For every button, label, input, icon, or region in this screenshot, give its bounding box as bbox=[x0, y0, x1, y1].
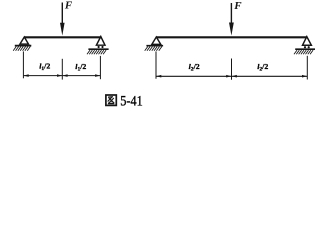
pin support A2 bbox=[152, 37, 161, 44]
extension line beam2 right bbox=[306, 56, 308, 80]
hatching B2 bbox=[294, 50, 313, 54]
rollers B1 bbox=[98, 46, 100, 48]
roller support B1 bbox=[96, 37, 105, 46]
dimension line beam1 left half bbox=[24, 74, 63, 77]
beam 1 bbox=[24, 36, 101, 38]
ground A2 bbox=[146, 45, 163, 47]
svg-text:5-41: 5-41 bbox=[120, 94, 143, 110]
beam 2 bbox=[156, 36, 307, 38]
force F2 arrow bbox=[229, 3, 234, 36]
extension line beam1 left bbox=[22, 51, 24, 78]
svg-text:l1/2: l1/2 bbox=[75, 62, 86, 73]
svg-text:l2/2: l2/2 bbox=[257, 62, 268, 73]
extension line beam2 left bbox=[155, 51, 157, 78]
caption hanzi TU (figure) drawn glyph bbox=[106, 95, 116, 105]
ground B1 bbox=[88, 48, 108, 50]
hatching B1 bbox=[87, 50, 106, 54]
dimension line beam2 left half bbox=[156, 75, 231, 78]
ground B2 bbox=[295, 48, 315, 50]
svg-text:l2/2: l2/2 bbox=[189, 62, 200, 73]
hatching A1 bbox=[13, 47, 30, 51]
pin support A1 bbox=[20, 37, 29, 44]
force F1 arrow bbox=[60, 3, 65, 36]
dimension line beam1 right half bbox=[63, 74, 101, 77]
extension line beam1 right bbox=[99, 56, 101, 79]
extension line beam2 middle bbox=[231, 59, 233, 80]
rollers B2 bbox=[304, 46, 306, 48]
ground A1 bbox=[15, 45, 32, 47]
svg-text:F: F bbox=[233, 0, 242, 12]
dimension line beam2 right half bbox=[232, 75, 307, 78]
svg-text:l1/2: l1/2 bbox=[39, 62, 50, 73]
roller support B2 bbox=[303, 37, 312, 46]
extension line beam1 middle bbox=[61, 59, 63, 80]
svg-text:F: F bbox=[64, 0, 73, 12]
hatching A2 bbox=[145, 47, 162, 51]
